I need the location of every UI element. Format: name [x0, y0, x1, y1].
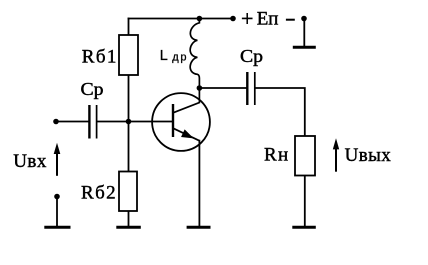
- svg-text:Rн: Rн: [264, 145, 289, 166]
- wire cap to base junction: [97, 121, 129, 123]
- wire input to cap: [56, 121, 90, 123]
- wire input ground: [56, 197, 58, 227]
- transistor emitter lead: [173, 128, 200, 141]
- wire supply minus to ground: [303, 19, 305, 47]
- inductor Ldr coil: [190, 19, 199, 89]
- capacitor Cp output plate 2: [254, 72, 256, 105]
- svg-text:Uвых: Uвых: [345, 145, 392, 166]
- capacitor Cp input plate 1: [88, 105, 90, 139]
- node rail inductor: [197, 16, 203, 22]
- svg-text:+: +: [241, 6, 253, 31]
- node supply minus: [301, 16, 307, 22]
- ground input: [44, 226, 70, 229]
- resistor Rb2: [119, 172, 137, 212]
- svg-text:Uвх: Uвх: [13, 151, 47, 172]
- transistor base bar: [172, 104, 174, 137]
- svg-text:Rб1: Rб1: [82, 47, 118, 68]
- node collector junction: [197, 85, 203, 91]
- svg-text:Еп: Еп: [257, 9, 279, 30]
- wire base: [129, 121, 174, 123]
- ground Rb2: [116, 226, 141, 229]
- transistor collector lead: [173, 88, 199, 113]
- capacitor Cp output plate 1: [246, 72, 248, 105]
- svg-text:др: др: [172, 52, 188, 64]
- node input ground terminal: [54, 194, 60, 200]
- transistor emitter arrow: [182, 130, 193, 138]
- wire top rail: [128, 18, 233, 20]
- svg-text:Ср: Ср: [81, 80, 104, 100]
- capacitor Cp input plate 2: [96, 105, 98, 139]
- wire collector to output cap: [199, 87, 247, 89]
- wire Rb1 to base junction to Rb2: [128, 75, 130, 172]
- arrow Uvyx: [335, 145, 337, 172]
- resistor Rn: [295, 136, 315, 176]
- svg-text:Rб2: Rб2: [81, 183, 117, 204]
- arrow Uvx: [56, 150, 58, 176]
- wire output cap to corner: [255, 88, 305, 136]
- wire emitter to ground: [198, 140, 200, 226]
- wire Rb2 to ground: [128, 211, 130, 226]
- resistor Rb1: [119, 35, 138, 75]
- ground emitter: [187, 226, 211, 229]
- svg-text:L: L: [160, 48, 168, 64]
- node input terminal: [53, 119, 59, 125]
- wire rail to Rb1: [128, 18, 130, 35]
- ground supply: [293, 46, 316, 49]
- svg-text:Ср: Ср: [240, 47, 263, 67]
- node supply plus: [230, 16, 236, 22]
- node base junction: [126, 119, 132, 125]
- wire Rn to ground: [304, 176, 306, 227]
- transistor VT circle: [152, 93, 210, 151]
- ground Rn: [292, 226, 316, 229]
